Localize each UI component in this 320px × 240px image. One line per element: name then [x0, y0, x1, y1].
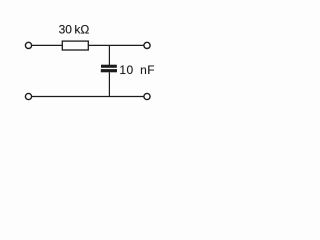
output terminal (top right) [144, 42, 150, 48]
capacitor 10 nF (bottom plate) [101, 69, 117, 72]
input terminal (top left) [25, 42, 31, 48]
capacitor 10 nF (top plate) [101, 65, 117, 68]
ground terminal (bottom left) [25, 93, 31, 99]
wire: top rail right segment [88, 44, 144, 46]
resistor 30 kOhm (box) [62, 41, 88, 50]
svg-text:10 nF: 10 nF [119, 63, 155, 77]
wire: capacitor branch upper [108, 45, 110, 65]
svg-text:30 kΩ: 30 kΩ [59, 22, 90, 36]
wire: bottom rail [32, 96, 144, 98]
ground terminal (bottom right) [144, 93, 150, 99]
wire: capacitor branch lower [108, 72, 110, 96]
wire: top rail left segment [32, 44, 62, 46]
